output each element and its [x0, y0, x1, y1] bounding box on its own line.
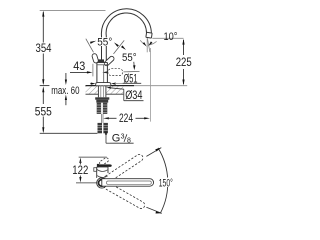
svg-text:354: 354 [36, 43, 53, 55]
svg-text:10°: 10° [164, 31, 178, 43]
svg-text:225: 225 [176, 57, 192, 69]
svg-text:555: 555 [35, 106, 52, 118]
svg-text:G: G [112, 133, 121, 145]
svg-text:3: 3 [121, 133, 125, 140]
svg-text:8: 8 [127, 138, 131, 145]
svg-text:55°: 55° [97, 36, 112, 48]
svg-text:Ø51: Ø51 [124, 73, 138, 85]
svg-text:Ø34: Ø34 [125, 90, 143, 102]
svg-text:55°: 55° [122, 52, 137, 64]
svg-text:max. 60: max. 60 [51, 85, 79, 97]
svg-text:224: 224 [119, 113, 133, 125]
svg-text:43: 43 [73, 61, 85, 73]
svg-text:122: 122 [72, 165, 88, 177]
svg-text:150°: 150° [159, 177, 173, 189]
